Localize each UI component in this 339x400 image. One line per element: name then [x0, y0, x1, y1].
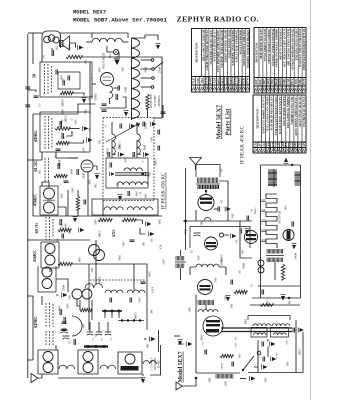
IF output transformer core — [115, 173, 149, 175]
grid dashes 6D6G — [44, 116, 46, 150]
arrow or2 — [271, 357, 277, 362]
svg-text:.05-: .05- — [57, 238, 60, 242]
chassis end cap — [293, 328, 295, 333]
wire v4c — [89, 62, 91, 114]
svg-text:-.02: -.02 — [61, 223, 64, 228]
IF can right B — [267, 258, 283, 263]
svg-text:10M: 10M — [79, 257, 82, 263]
coil hatch bottom2 — [216, 374, 233, 379]
svg-text:Model 5EX7: Model 5EX7 — [215, 104, 222, 139]
wire g15 — [144, 338, 147, 340]
tube V5 mixer — [198, 195, 214, 211]
capacitor C12 — [60, 309, 62, 315]
svg-text:350V: 350V — [235, 342, 238, 348]
junction dots net — [282, 297, 284, 299]
IF shield dashed box — [103, 117, 154, 119]
tube V3 arc — [72, 316, 82, 336]
speaker can A — [38, 350, 58, 374]
vertical wire x68 — [67, 190, 69, 216]
capacitor C14 curved — [60, 329, 68, 331]
capacitor C33r — [292, 222, 294, 227]
output transformer loops A — [253, 324, 271, 326]
resistor R15 — [260, 304, 273, 307]
capacitor C15 — [74, 339, 76, 345]
wire g15 — [144, 338, 147, 340]
wire l4 — [136, 122, 138, 134]
IF transformer T3 windings — [42, 267, 52, 277]
IF T1 core — [43, 199, 55, 201]
svg-text:6L5G: 6L5G — [33, 160, 38, 172]
svg-text:UL9: UL9 — [262, 141, 266, 148]
wire trunk 6 — [87, 172, 89, 216]
svg-text:6D6G: 6D6G — [33, 130, 38, 142]
tube V6X5 — [89, 245, 100, 256]
resistor R11 — [234, 290, 247, 293]
ground g15 — [150, 337, 156, 342]
capacitor C4 — [60, 121, 62, 127]
wire right border low2 — [150, 345, 161, 375]
svg-text:456KC: 456KC — [32, 250, 37, 263]
core arrow right — [140, 172, 145, 176]
capacitor C37 — [262, 342, 264, 347]
svg-text:LKY: LKY — [258, 141, 262, 149]
osc coil right B — [176, 264, 184, 269]
svg-text:-90V: -90V — [265, 377, 268, 382]
wire t1 top — [42, 182, 49, 187]
capacitor C18b — [102, 110, 107, 112]
svg-text:25M: 25M — [69, 44, 72, 50]
arrow br1 — [187, 342, 193, 347]
svg-text:100M: 100M — [145, 66, 148, 73]
IF output transformer secondary — [117, 182, 148, 185]
wire top h2 — [92, 33, 128, 38]
svg-text:250V: 250V — [83, 147, 86, 153]
wire bottom link — [58, 377, 143, 379]
svg-text:350V: 350V — [95, 219, 98, 225]
wire r16 — [72, 263, 89, 265]
capacitor C25 — [110, 298, 112, 303]
ground top-left — [78, 45, 84, 50]
tube V1 58 elements — [44, 36, 51, 43]
wire br2 — [178, 343, 184, 345]
svg-text:250V: 250V — [139, 297, 142, 303]
coil L2 osc — [110, 86, 113, 98]
svg-text:.01-: .01- — [39, 103, 42, 107]
ground g8 — [124, 111, 129, 117]
choke loops AB — [59, 365, 75, 369]
svg-text:-.02: -.02 — [221, 199, 224, 204]
capacitor C11 — [62, 234, 64, 239]
wire c1 — [51, 48, 53, 51]
ground g10 — [151, 122, 157, 127]
svg-text:100V: 100V — [65, 223, 68, 229]
svg-text:50M: 50M — [209, 377, 212, 383]
arrow v8b — [292, 244, 297, 250]
wire ant2 — [195, 165, 197, 171]
power winding right — [268, 170, 277, 186]
svg-text:6MO: 6MO — [293, 141, 297, 149]
output can C — [118, 352, 142, 374]
choke winding B — [127, 207, 153, 210]
capacitor C35 — [205, 350, 207, 355]
ground g4 — [83, 126, 89, 131]
parts list table 1 — [192, 29, 250, 93]
page edge line — [310, 0, 312, 400]
wire vd down — [274, 262, 276, 280]
svg-text:1MEG: 1MEG — [267, 299, 270, 306]
svg-text:REJECTOR: REJECTOR — [150, 94, 153, 109]
wire osc e — [123, 97, 127, 108]
svg-text:-.006: -.006 — [122, 67, 125, 73]
resistor R3 vertical — [146, 94, 149, 109]
svg-text:.002: .002 — [69, 229, 72, 234]
wire or1 — [250, 304, 300, 306]
tube V7 det2 — [198, 280, 213, 295]
capacitor C43 — [158, 130, 160, 135]
wire top join — [28, 32, 42, 34]
svg-text:OHMS: OHMS — [95, 93, 98, 101]
speaker can A windings — [43, 352, 53, 362]
wire pilot bus — [105, 56, 127, 58]
resistor R18 vertical — [76, 196, 79, 210]
switch contact 1 — [151, 59, 154, 62]
svg-text:4MFD: 4MFD — [107, 148, 110, 155]
wire r4 — [70, 128, 80, 130]
svg-text:10M: 10M — [289, 300, 292, 306]
arrow bb — [250, 376, 256, 381]
wire r2 out — [73, 93, 84, 96]
wire l3 — [111, 122, 113, 134]
wire osc r2 — [180, 268, 182, 280]
wire coil top — [132, 35, 159, 40]
capacitor C38 — [263, 357, 265, 362]
tube V6r bands — [206, 242, 216, 244]
svg-text:.01-: .01- — [285, 266, 288, 270]
capacitor C20 — [143, 122, 145, 127]
wire plate 58 — [70, 43, 76, 48]
capacitor C2c — [63, 81, 65, 86]
choke loops CD — [143, 361, 157, 364]
coil bumps bottom — [198, 310, 218, 313]
svg-text:45H: 45H — [91, 268, 94, 273]
svg-text:.05-: .05- — [151, 238, 154, 242]
wire t2 a — [49, 268, 51, 272]
resistor R8 — [98, 218, 112, 221]
svg-text:87W: 87W — [245, 77, 249, 84]
wire rs3 — [227, 192, 229, 221]
ground coil top — [156, 44, 161, 50]
svg-text:6X5: 6X5 — [111, 229, 116, 236]
capacitor C18 — [102, 104, 107, 106]
wire pilot drop — [116, 56, 118, 57]
svg-text:100V: 100V — [123, 241, 126, 247]
ground g9b — [119, 152, 125, 157]
svg-text:P1N: P1N — [289, 141, 293, 148]
tube V9 bands — [206, 320, 220, 322]
wire pw drop3 — [118, 311, 120, 318]
wire box out — [92, 83, 96, 85]
svg-text:.0002: .0002 — [159, 218, 162, 225]
wire v5 k — [195, 210, 197, 221]
svg-text:10M: 10M — [189, 307, 192, 313]
svg-text:50M: 50M — [201, 220, 204, 226]
coil L1 tapped winding — [132, 38, 140, 119]
wire et stems — [89, 322, 91, 332]
resistor R17 — [80, 308, 92, 311]
svg-text:.0001: .0001 — [136, 190, 139, 197]
svg-text:100M: 100M — [71, 168, 74, 175]
wire trunk 7 — [102, 201, 104, 217]
svg-text:250M: 250M — [59, 159, 62, 166]
svg-text:VIC: VIC — [275, 141, 279, 148]
wire osc d — [109, 98, 111, 104]
antenna coil T5 core — [196, 183, 220, 185]
wire 58 k — [41, 48, 43, 62]
svg-text:V.B.: V.B. — [159, 244, 163, 250]
capacitor C20b — [133, 152, 135, 157]
electrolytic T1b — [87, 331, 93, 333]
svg-text:.002: .002 — [85, 59, 88, 64]
svg-text:-90V: -90V — [83, 323, 86, 328]
bus stub 2 — [28, 295, 33, 297]
svg-text:-.05: -.05 — [221, 168, 224, 173]
svg-text:350V: 350V — [125, 157, 128, 163]
choke winding A — [104, 207, 123, 210]
svg-text:-.75: -.75 — [140, 191, 143, 196]
switch arm — [154, 62, 163, 69]
wire tap1 — [141, 59, 152, 61]
IF transformer T3 can — [38, 266, 56, 292]
coupling transformer circles — [72, 289, 82, 299]
capacitor C2b — [68, 76, 70, 81]
svg-text:8MFD: 8MFD — [221, 362, 224, 369]
wire hop — [204, 218, 211, 221]
IF transformer T2 can — [41, 242, 59, 268]
core arrow left — [110, 172, 115, 176]
coil L3 in shield — [112, 134, 115, 154]
grid dashes 6D8G b — [45, 331, 47, 345]
power section border — [89, 264, 147, 330]
wire v5 r — [214, 208, 218, 210]
wire c19b — [111, 141, 113, 159]
svg-text:6S7G: 6S7G — [34, 222, 39, 233]
right frame — [261, 165, 301, 298]
svg-text:.01-: .01- — [69, 340, 72, 344]
grid dashes 6D8G a — [45, 303, 47, 328]
antenna box right — [196, 165, 220, 178]
svg-text:-90V: -90V — [285, 205, 288, 210]
wire ct — [56, 294, 59, 296]
IF can right core — [266, 255, 284, 257]
svg-text:75M: 75M — [185, 229, 188, 235]
svg-text:.05-: .05- — [239, 270, 242, 274]
wire trunk 4 — [32, 160, 34, 216]
svg-text:LAFS: LAFS — [152, 286, 155, 293]
svg-text:350V: 350V — [72, 187, 75, 193]
junction dots row2 — [121, 319, 123, 321]
svg-text:100V: 100V — [232, 213, 235, 219]
svg-text:MODEL 5EX7: MODEL 5EX7 — [73, 8, 106, 15]
wire v9 top — [205, 305, 207, 310]
svg-text:2MEG: 2MEG — [254, 207, 257, 214]
output can C winding — [125, 354, 135, 364]
inner box 58 — [58, 72, 80, 89]
svg-text:447V: 447V — [149, 271, 152, 277]
wire trunk 5 — [68, 157, 78, 159]
wire frame top arrows — [284, 158, 289, 164]
svg-text:-.006: -.006 — [225, 381, 228, 387]
ground pilot big — [114, 58, 120, 65]
svg-text:.05-: .05- — [76, 55, 79, 59]
svg-text:-.05: -.05 — [236, 239, 239, 244]
svg-text:-.02: -.02 — [43, 54, 46, 59]
wire pw v1 — [95, 264, 97, 284]
wire 6d8g3 — [32, 296, 34, 360]
antenna coil T5 bold — [198, 185, 220, 189]
wire 6d6g top — [33, 113, 78, 115]
svg-text:2MEG: 2MEG — [155, 158, 158, 165]
svg-text:L0Y: L0Y — [302, 141, 306, 148]
meander resistor R12 — [266, 194, 277, 248]
tube V9 dark anode — [206, 329, 219, 333]
tube V6r — [205, 237, 218, 250]
ground g23 — [245, 229, 250, 235]
svg-text:25M: 25M — [225, 295, 228, 301]
svg-text:MODEL 5OB7.Above Ser.780001: MODEL 5OB7.Above Ser.780001 — [73, 16, 167, 23]
capacitor C32r — [240, 229, 242, 234]
wire rbus — [195, 295, 197, 301]
ground g6 — [95, 174, 100, 180]
svg-text:8MFD: 8MFD — [135, 312, 138, 319]
svg-text:2MEG: 2MEG — [65, 115, 68, 122]
wire g26 — [254, 366, 259, 368]
choke loops BC — [100, 365, 116, 369]
svg-text:DESCRIPTION: DESCRIPTION — [255, 42, 259, 63]
wire tap4 — [141, 86, 152, 88]
wire ct4 — [77, 299, 80, 306]
tap circle r — [220, 233, 224, 237]
capacitor C32 — [247, 216, 249, 221]
speaker can B windings — [83, 352, 93, 362]
stage box 6D6G — [40, 112, 90, 152]
electrolytic T3b — [105, 331, 111, 333]
resistor R13 — [281, 264, 284, 280]
capacitor C2 — [56, 70, 58, 75]
coil loops out2 — [274, 333, 287, 335]
heater loop row — [92, 38, 122, 42]
svg-text:.0002: .0002 — [61, 192, 64, 199]
electrolytic C28 — [63, 335, 70, 337]
capacitor C13 — [64, 317, 66, 323]
capacitor C3b — [34, 96, 39, 98]
wire bb1 — [196, 372, 240, 374]
power winding core — [273, 169, 275, 187]
wire c3 — [162, 105, 164, 118]
resistor R7 — [58, 228, 71, 231]
capacitor C7 — [77, 169, 79, 175]
ground g22 — [226, 296, 231, 302]
wire antenna bus — [27, 34, 29, 378]
capacitor C41 — [62, 329, 67, 331]
wire oc — [267, 339, 269, 342]
svg-text:250M: 250M — [145, 122, 148, 129]
IF can right A — [267, 249, 283, 254]
svg-text:100M: 100M — [144, 144, 147, 151]
junction dots power — [104, 310, 107, 313]
bold bus — [102, 310, 122, 312]
wire r5 — [69, 140, 84, 143]
svg-text:100V: 100V — [75, 119, 78, 125]
chassis double line — [221, 328, 292, 332]
resistor R2 — [60, 91, 73, 94]
wire or3 — [257, 340, 259, 373]
ground g14 — [149, 232, 155, 237]
grid dashes 6L5G — [44, 158, 46, 182]
resistor R14 — [220, 354, 233, 357]
speaker can B — [78, 350, 98, 374]
osc coil right core — [175, 261, 186, 263]
svg-text:8MFD: 8MFD — [62, 99, 65, 106]
parts list table 2 lower — [253, 95, 306, 153]
tube V2 inner — [83, 164, 91, 168]
tap circle out — [257, 351, 261, 355]
wire shield in — [131, 112, 133, 120]
wire pw drop1 — [104, 311, 106, 318]
wire coil core — [131, 38, 133, 120]
svg-text:50M: 50M — [99, 67, 102, 73]
capacitor C19b — [108, 152, 110, 157]
IF output transformer primary — [124, 168, 143, 171]
svg-text:C19: C19 — [297, 142, 301, 148]
svg-text:.002: .002 — [95, 183, 98, 188]
svg-text:-.006: -.006 — [151, 137, 154, 143]
audio box — [92, 199, 158, 215]
wire ant3 — [182, 378, 196, 386]
svg-text:250M: 250M — [159, 66, 162, 73]
svg-text:250M: 250M — [63, 284, 66, 291]
capacitor C30r — [218, 207, 220, 212]
dial lamp circles — [258, 260, 264, 266]
arrow a1 — [225, 207, 231, 212]
svg-text:75M: 75M — [287, 361, 290, 367]
caption Model 5EX7 Parts List — [215, 104, 231, 139]
tube V9 — [203, 316, 223, 336]
svg-text:ZEPHYR RADIO CO.: ZEPHYR RADIO CO. — [177, 15, 259, 24]
wire aud1 — [136, 220, 143, 224]
svg-text:10M: 10M — [151, 309, 154, 315]
wire right border low — [158, 330, 160, 352]
out xfmr box — [248, 316, 290, 321]
svg-text:100V: 100V — [163, 259, 166, 265]
resistor R6 — [54, 174, 67, 177]
grid dashes 6S7G — [45, 217, 47, 240]
capacitor C9 — [64, 181, 69, 183]
svg-text:1MEG: 1MEG — [99, 230, 102, 237]
out sub-box B — [271, 328, 289, 338]
capacitor on bus 1 — [25, 87, 30, 89]
svg-text:50M: 50M — [117, 183, 120, 189]
filter choke 2 — [105, 290, 123, 293]
filter choke 3 — [127, 290, 145, 293]
capacitor on bus 2 — [25, 105, 30, 107]
wire osc r — [180, 250, 182, 256]
capacitor C16 — [116, 94, 118, 100]
svg-text:2MEG: 2MEG — [299, 348, 302, 355]
svg-text:-90V: -90V — [242, 249, 245, 254]
capacitor C17 — [118, 86, 120, 91]
svg-text:SN4I2H1 WER3EO HKZKS: SN4I2H1 WER3EO HKZKS — [246, 30, 250, 68]
svg-text:.0001: .0001 — [89, 178, 92, 185]
